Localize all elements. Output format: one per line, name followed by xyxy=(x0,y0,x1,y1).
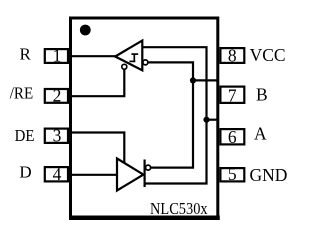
svg-text:B: B xyxy=(256,85,268,105)
svg-text:4: 4 xyxy=(53,164,62,184)
svg-text:2: 2 xyxy=(53,86,62,106)
svg-text:5: 5 xyxy=(228,164,237,184)
svg-text:GND: GND xyxy=(250,165,288,185)
svg-text:R: R xyxy=(20,45,32,64)
svg-text:A: A xyxy=(254,123,267,143)
svg-text:D: D xyxy=(19,163,31,182)
svg-text:NLC530x: NLC530x xyxy=(150,199,208,218)
svg-text:6: 6 xyxy=(228,127,237,147)
svg-text:1: 1 xyxy=(53,46,62,66)
svg-text:3: 3 xyxy=(53,126,62,146)
svg-text:DE: DE xyxy=(15,126,35,145)
svg-text:7: 7 xyxy=(228,86,237,106)
svg-text:/RE: /RE xyxy=(10,84,34,103)
svg-text:VCC: VCC xyxy=(250,45,286,65)
svg-text:8: 8 xyxy=(228,46,237,66)
